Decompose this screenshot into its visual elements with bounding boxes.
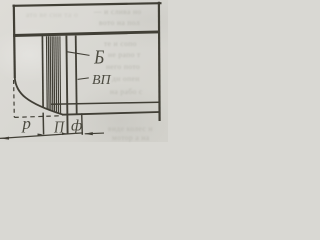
hatch line 1 (46, 36, 49, 109)
extension line right of f (81, 113, 84, 135)
faint reverse-page text bleed bottom right (108, 124, 153, 133)
extension line below hatch left edge (42, 113, 44, 135)
bottom edge line B (62, 112, 160, 115)
right vertical edge / extension line (158, 2, 161, 121)
leader line for B label (68, 52, 90, 56)
left vertical edge (14, 5, 15, 78)
second horizontal line (top band bottom) (13, 32, 158, 36)
hidden corner dashed horizontal (14, 116, 62, 118)
faint reverse-page text bleed top right (94, 7, 142, 16)
arrowhead of outside arrow pointing left (84, 132, 93, 135)
svg-text:П: П (53, 118, 65, 136)
svg-text:ВП: ВП (92, 73, 112, 88)
hatch line 5 (53, 36, 56, 112)
svg-text:р: р (21, 114, 31, 133)
vertical line V2 (76, 36, 77, 114)
outside arrow line right of f (85, 132, 104, 135)
rounded corner profile curve (15, 78, 63, 115)
arrowhead at extension x67 pointing right (62, 133, 67, 135)
bottom dimension line (0, 133, 83, 139)
hatch zone left edge (41, 36, 44, 108)
leader line for VP label (78, 78, 89, 80)
inner horizontal line A (51, 102, 159, 104)
hatch line 7 (57, 36, 60, 113)
hatch line 6 (55, 36, 58, 112)
vertical line V1 / extension line (66, 36, 67, 134)
svg-text:Б: Б (93, 46, 104, 69)
hatch line 2 (47, 36, 50, 110)
hatch line 3 (49, 36, 52, 110)
arrowhead left end of dimension line (1, 137, 10, 140)
hidden corner dashed vertical (13, 80, 16, 117)
svg-text:ф: ф (71, 117, 82, 134)
arrowhead at extension x42 pointing right (38, 134, 44, 136)
hatch line 8 (59, 36, 62, 114)
faint reverse-page text bleed inside body right (104, 39, 137, 48)
top edge line of part (13, 3, 162, 6)
hatch line 4 (51, 36, 54, 111)
